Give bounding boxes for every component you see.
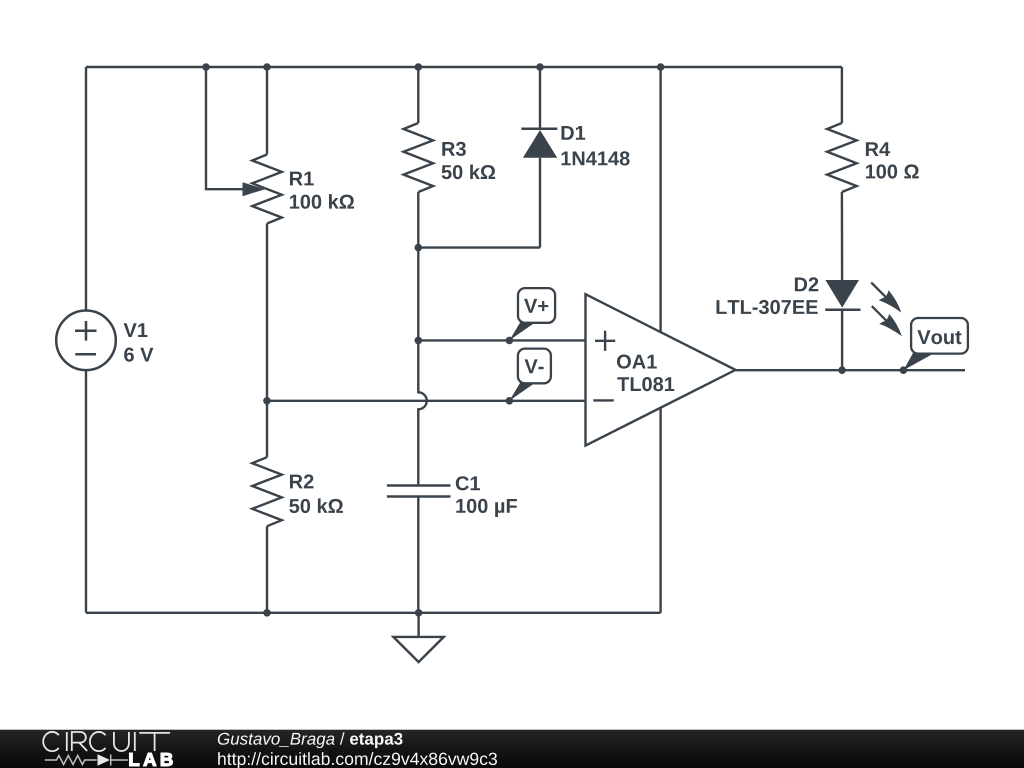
diode D1 <box>521 129 557 158</box>
footer credit line <box>218 732 403 748</box>
voltage source V1 <box>56 311 116 371</box>
junction dot output at R4/D2 column <box>838 366 846 374</box>
wire top rail <box>86 66 842 68</box>
wire R2 bottom lead <box>266 526 268 613</box>
junction dot top rail x=660 <box>657 63 665 71</box>
wire R3 top lead <box>417 67 419 123</box>
wire D1 anode lead <box>539 158 541 248</box>
junction dot V- flag anchor <box>506 397 514 405</box>
wire D2 cathode lead <box>841 310 843 370</box>
capacitor C1 <box>387 486 451 497</box>
value TL081 <box>617 377 674 391</box>
label R2 <box>290 474 314 488</box>
value 100 Ohm <box>866 164 919 178</box>
junction dot bottom rail x=267 <box>263 609 271 617</box>
junction dot top rail x=418 <box>415 63 423 71</box>
junction dot bottom rail x=418 <box>415 609 423 617</box>
resistor R2 <box>252 457 282 526</box>
ground <box>393 613 443 662</box>
junction dot node R3/D1 <box>415 244 423 252</box>
wire output row <box>735 369 965 371</box>
flag node Vout <box>903 318 967 370</box>
wire R3 column with hop over minus-input wire <box>418 340 427 485</box>
label R1 <box>290 172 314 186</box>
wire R4 bottom to LED <box>841 192 844 280</box>
LED D2 <box>825 280 860 310</box>
resistor R3 <box>404 123 434 192</box>
CircuitLab logo LAB <box>130 753 173 766</box>
wire bottom rail <box>86 612 661 614</box>
wire C1 bottom lead <box>417 497 419 613</box>
junction dot minus input at R1/R2 column <box>263 397 271 405</box>
junction dot top rail x=267 <box>263 63 271 71</box>
label V1 <box>124 323 148 337</box>
junction dot plus input at R3 column <box>415 337 423 345</box>
value 50 kOhm <box>289 498 343 513</box>
value 6 V <box>124 348 153 362</box>
flag node V+ <box>509 288 555 340</box>
potentiometer wiper arrow <box>243 182 266 196</box>
label R3 <box>442 142 466 156</box>
wire R3 bottom to node <box>417 192 419 340</box>
wire R1 bottom to R2 top <box>266 224 268 458</box>
label D1 <box>562 126 586 140</box>
wire R1 top lead <box>266 67 268 155</box>
wire left edge lower (V1 to bottom rail) <box>85 370 87 613</box>
CircuitLab logo diode triangle <box>98 754 111 765</box>
junction dot Vout flag anchor <box>900 366 908 374</box>
LED D2 light arrow 2 <box>872 306 902 336</box>
resistor R4 <box>827 123 857 192</box>
flag node V- <box>509 349 551 401</box>
label OA1 <box>617 355 657 369</box>
wire D1 cathode lead <box>539 67 541 129</box>
label D2 <box>795 277 818 291</box>
wire pot wiper vertical <box>206 67 244 189</box>
value 100 kOhm <box>290 194 354 209</box>
footer url line <box>218 752 497 768</box>
wire R4 top lead <box>841 67 843 123</box>
value 100 uF <box>456 499 517 517</box>
wire op-amp supply vertical <box>659 67 661 613</box>
op-amp OA1 <box>586 294 736 445</box>
wire node R3 to D1 anode <box>418 246 540 248</box>
wire op-amp minus input <box>267 400 586 402</box>
value 1N4148 <box>562 151 630 165</box>
label C1 <box>456 476 480 490</box>
junction dot top rail x=540 <box>536 63 544 71</box>
label R4 <box>866 142 890 156</box>
junction dot top rail x=206 <box>202 63 210 71</box>
resistor R1 (potentiometer) <box>252 155 282 224</box>
CircuitLab logo doodle (resistor + diode) <box>45 755 128 766</box>
wire op-amp plus input <box>418 339 585 341</box>
LED D2 light arrow 1 <box>871 283 901 313</box>
CircuitLab logo CIRCUIT <box>43 732 170 751</box>
footer bar <box>0 730 1024 768</box>
junction dot V+ flag anchor <box>506 337 514 345</box>
value LTL-307EE <box>717 300 818 314</box>
wire left edge upper (rail to V1) <box>85 67 87 311</box>
value 50 kOhm R3 <box>442 165 496 180</box>
